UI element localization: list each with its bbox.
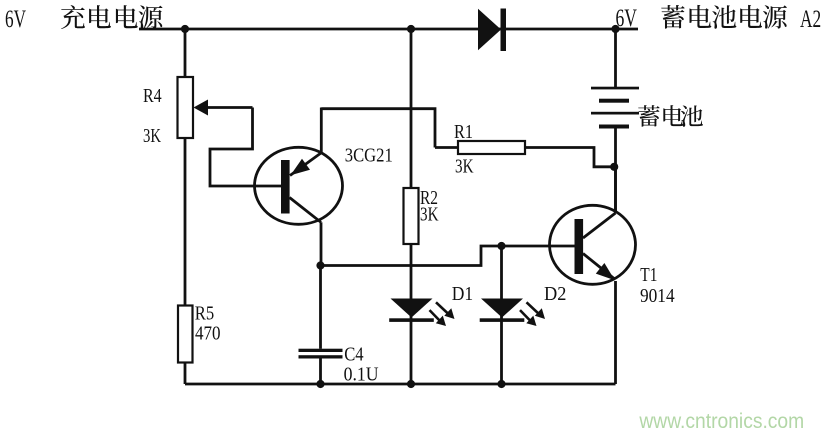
svg-text:D2: D2: [544, 283, 566, 305]
svg-text:9014: 9014: [640, 285, 675, 307]
svg-text:R4: R4: [143, 85, 162, 107]
svg-text:6V: 6V: [616, 5, 638, 32]
svg-text:6V: 6V: [5, 6, 26, 33]
svg-text:R1: R1: [454, 121, 473, 143]
svg-text:www.cntronics.com: www.cntronics.com: [638, 410, 804, 433]
svg-text:3CG21: 3CG21: [345, 145, 393, 167]
svg-text:470: 470: [195, 323, 221, 345]
svg-text:T1: T1: [640, 264, 657, 286]
svg-text:0.1U: 0.1U: [344, 364, 379, 386]
svg-text:3K: 3K: [455, 156, 474, 178]
svg-text:3K: 3K: [143, 125, 161, 147]
svg-text:A2: A2: [800, 6, 821, 33]
svg-text:D1: D1: [452, 283, 473, 305]
svg-text:R5: R5: [195, 303, 214, 325]
svg-text:C4: C4: [344, 344, 363, 366]
svg-text:3K: 3K: [420, 204, 439, 226]
